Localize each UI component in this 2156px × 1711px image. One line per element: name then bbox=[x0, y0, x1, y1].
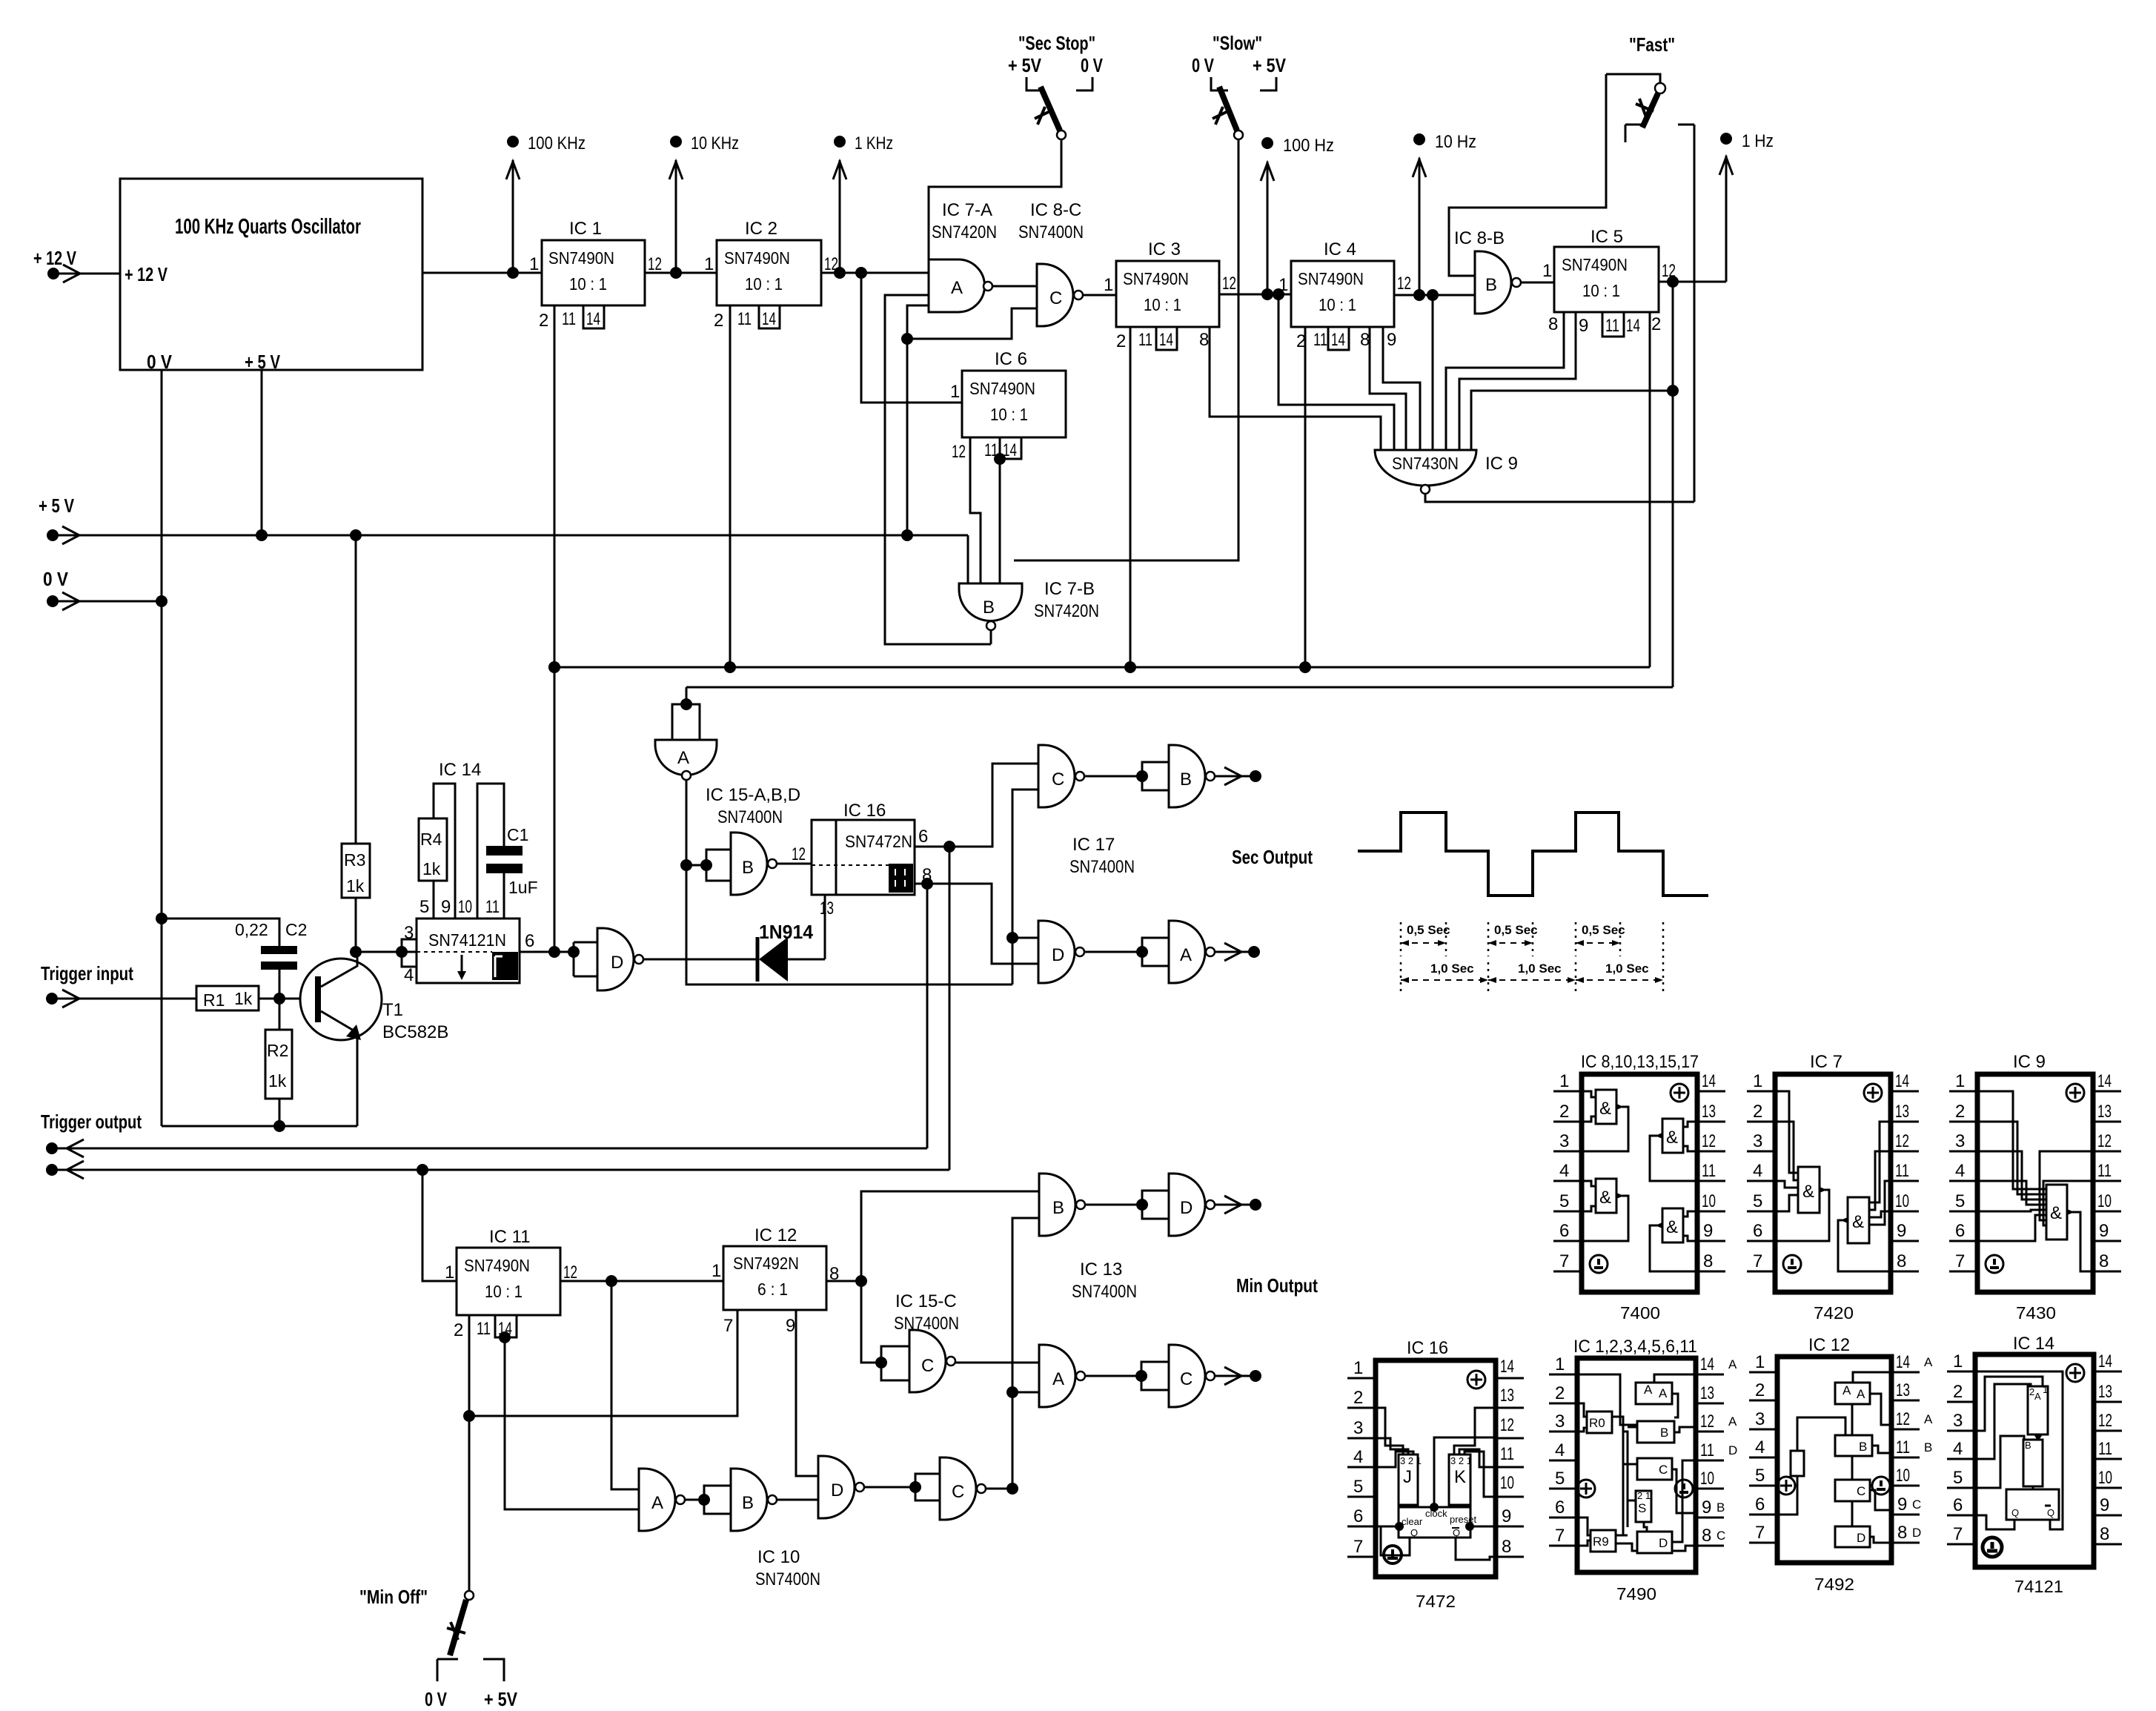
wire R3 to collector node bbox=[355, 898, 357, 952]
svg-text:14: 14 bbox=[1626, 316, 1640, 336]
gate A IC7-A SN7420N bbox=[929, 200, 997, 312]
wire IC6 pin12 to IC7-B input2 bbox=[970, 437, 981, 583]
svg-text:4: 4 bbox=[404, 965, 414, 985]
resistor R2 bbox=[265, 1030, 292, 1099]
svg-text:A: A bbox=[1644, 1383, 1653, 1397]
svg-text:2: 2 bbox=[1353, 1388, 1363, 1408]
svg-text:R3: R3 bbox=[344, 850, 365, 870]
svg-text:2: 2 bbox=[714, 311, 723, 331]
svg-text:IC 9: IC 9 bbox=[2013, 1052, 2046, 1072]
svg-text:6: 6 bbox=[1559, 1221, 1569, 1241]
gate A IC10 SN7400N bbox=[639, 1469, 685, 1531]
svg-text:4: 4 bbox=[1753, 1161, 1762, 1181]
svg-text:14: 14 bbox=[1896, 1352, 1910, 1372]
svg-text:1: 1 bbox=[704, 254, 714, 274]
svg-text:IC 10: IC 10 bbox=[757, 1547, 800, 1567]
dimension 0,5 Sec markers bbox=[1401, 922, 1625, 956]
pinout IC 8,10,13,15,17 7400 bbox=[1553, 1052, 1725, 1323]
svg-text:6: 6 bbox=[1753, 1221, 1762, 1241]
inner gate 3 bbox=[1683, 1122, 1697, 1151]
svg-text:13: 13 bbox=[1500, 1386, 1514, 1406]
wire Slow to IC7-B input4 bbox=[1014, 139, 1238, 560]
label IC 13 bbox=[1072, 1260, 1137, 1302]
gate B IC13 SN7400N bbox=[1039, 1174, 1085, 1236]
svg-text:S: S bbox=[1638, 1501, 1646, 1515]
svg-text:Q: Q bbox=[2047, 1507, 2054, 1518]
svg-text:5: 5 bbox=[1559, 1191, 1569, 1211]
svg-text:1: 1 bbox=[1953, 1351, 1963, 1371]
wire IC7-A output to IC8-C bbox=[992, 285, 1037, 288]
inner gate 8-input bbox=[1977, 1091, 2046, 1241]
svg-text:3: 3 bbox=[1755, 1409, 1765, 1429]
wire IC3 pin2 reset down bbox=[1130, 327, 1132, 667]
svg-text:2: 2 bbox=[539, 311, 548, 331]
gate B IC10 SN7400N bbox=[704, 1469, 777, 1531]
svg-text:8: 8 bbox=[1897, 1523, 1907, 1543]
svg-text:8: 8 bbox=[2099, 1251, 2109, 1271]
wire IC5 out down to IC9 in8 and sec bus bbox=[1672, 282, 1674, 687]
wire trigger output 2 bbox=[52, 1169, 949, 1171]
wire Fast left to IC8-B loop bbox=[1449, 74, 1606, 276]
svg-text:3 2 1: 3 2 1 bbox=[1450, 1455, 1472, 1466]
svg-text:10: 10 bbox=[1895, 1191, 1909, 1211]
svg-text:C: C bbox=[952, 1482, 964, 1502]
inner J box bbox=[1376, 1408, 1413, 1467]
svg-text:12: 12 bbox=[563, 1262, 577, 1283]
svg-text:SN7472N: SN7472N bbox=[845, 832, 912, 851]
svg-text:SN7490N: SN7490N bbox=[1123, 269, 1189, 288]
gate A IC13 SN7400N bbox=[1039, 1345, 1085, 1407]
wire IC7-B out feed to IC7-A input3 bbox=[885, 295, 991, 644]
svg-text:7: 7 bbox=[1955, 1251, 1965, 1271]
svg-text:2: 2 bbox=[1555, 1383, 1565, 1403]
node +12V input bbox=[33, 247, 120, 282]
svg-text:8: 8 bbox=[1548, 314, 1558, 334]
gate D IC10 SN7400N bbox=[818, 1456, 864, 1518]
inner B box bbox=[1637, 1421, 1674, 1443]
svg-text:Trigger output: Trigger output bbox=[41, 1111, 142, 1133]
wire IC5 pin8 to IC9 in6 bbox=[1446, 312, 1564, 450]
svg-text:T1: T1 bbox=[382, 1000, 403, 1020]
wire oscillator +5V down bbox=[261, 370, 263, 535]
svg-text:13: 13 bbox=[820, 898, 834, 919]
svg-text:13: 13 bbox=[1896, 1380, 1910, 1400]
wire IC11 pin2 down to Min Off bbox=[468, 1315, 471, 1592]
wire IC4 out to IC8-B bbox=[1394, 294, 1475, 297]
svg-text:A: A bbox=[1659, 1386, 1668, 1400]
wire pin8 up to IC13-B input bbox=[861, 1191, 1039, 1281]
gate B IC8-B SN7400N bbox=[1454, 228, 1521, 314]
svg-text:2: 2 bbox=[1651, 314, 1661, 334]
svg-text:10 : 1: 10 : 1 bbox=[485, 1282, 523, 1301]
svg-text:IC 8-C: IC 8-C bbox=[1030, 200, 1081, 220]
svg-text:12: 12 bbox=[792, 844, 806, 864]
svg-text:0 V: 0 V bbox=[1192, 54, 1215, 76]
svg-text:1,0 Sec: 1,0 Sec bbox=[1605, 962, 1649, 976]
svg-text:C: C bbox=[1857, 1484, 1865, 1498]
svg-text:10: 10 bbox=[2098, 1468, 2112, 1488]
wire trigger output 1 bbox=[52, 1148, 927, 1150]
svg-text:5: 5 bbox=[419, 897, 429, 917]
svg-text:9: 9 bbox=[1579, 316, 1588, 336]
pinout IC 1,2,3,4,5,6,11 7490 bbox=[1549, 1337, 1737, 1604]
wire +5V rail corner into IC7-B input1 bbox=[967, 535, 969, 583]
wire 1Hz clock bus y927 bbox=[686, 686, 1673, 689]
svg-text:IC 7-A: IC 7-A bbox=[942, 200, 992, 220]
svg-text:B: B bbox=[1052, 1198, 1064, 1218]
svg-text:0,22: 0,22 bbox=[235, 920, 268, 939]
svg-text:0 V: 0 V bbox=[43, 568, 69, 590]
svg-text:SN7490N: SN7490N bbox=[1562, 255, 1628, 274]
inner C box bbox=[1637, 1458, 1672, 1480]
diode D1 1N914 bbox=[643, 921, 825, 982]
svg-text:12: 12 bbox=[952, 442, 966, 462]
wire IC17-D out to IC17-A bbox=[1084, 951, 1142, 953]
svg-text:A: A bbox=[2034, 1391, 2041, 1402]
wire IC16 pin6 output bbox=[915, 764, 1038, 847]
svg-text:1,0 Sec: 1,0 Sec bbox=[1518, 962, 1562, 976]
svg-text:R4: R4 bbox=[420, 830, 442, 849]
svg-text:8: 8 bbox=[1360, 330, 1370, 350]
svg-text:9: 9 bbox=[1703, 1221, 1713, 1241]
inner C box bbox=[1835, 1480, 1870, 1501]
svg-text:14: 14 bbox=[1700, 1354, 1714, 1374]
wire C2 top to 0V vertical bbox=[162, 919, 279, 946]
svg-text:3: 3 bbox=[1953, 1411, 1963, 1431]
svg-text:A: A bbox=[1728, 1357, 1737, 1371]
svg-text:1: 1 bbox=[1955, 1071, 1965, 1091]
svg-text:A: A bbox=[1052, 1369, 1064, 1389]
svg-text:10: 10 bbox=[1702, 1191, 1716, 1211]
svg-text:+ 5V: + 5V bbox=[1253, 54, 1287, 76]
svg-text:+ 12 V: + 12 V bbox=[125, 263, 167, 285]
wire +5V rail bbox=[53, 535, 968, 537]
node Sec output 2 bbox=[1215, 943, 1260, 961]
label IC 17 bbox=[1069, 835, 1135, 877]
svg-text:+ 5V: + 5V bbox=[484, 1688, 518, 1710]
inner A box bbox=[1835, 1383, 1870, 1404]
waveform Sec Output timing bbox=[1358, 813, 1708, 896]
wire IC4 pin9 to IC9 in4 bbox=[1383, 327, 1420, 450]
label IC 10 bbox=[755, 1547, 820, 1589]
svg-text:IC 1,2,3,4,5,6,11: IC 1,2,3,4,5,6,11 bbox=[1573, 1337, 1697, 1357]
svg-text:13: 13 bbox=[1895, 1102, 1909, 1122]
svg-text:C1: C1 bbox=[507, 825, 528, 844]
wire reset bus y900 bbox=[554, 666, 1650, 669]
svg-text:0 V: 0 V bbox=[147, 351, 173, 373]
svg-text:R1: R1 bbox=[203, 990, 225, 1010]
svg-text:IC 11: IC 11 bbox=[489, 1227, 531, 1247]
svg-text:6: 6 bbox=[1953, 1495, 1963, 1515]
svg-text:7: 7 bbox=[1753, 1251, 1762, 1271]
svg-text:B: B bbox=[1924, 1440, 1932, 1454]
svg-text:12: 12 bbox=[1895, 1131, 1909, 1151]
node Min output 1 bbox=[1215, 1196, 1261, 1214]
svg-text:Q: Q bbox=[1453, 1527, 1460, 1538]
svg-text:9: 9 bbox=[1387, 330, 1396, 350]
wire Fast right to IC9 output bbox=[1694, 125, 1696, 502]
svg-text:D: D bbox=[1857, 1531, 1865, 1545]
svg-text:14: 14 bbox=[1159, 330, 1173, 350]
svg-text:10: 10 bbox=[1896, 1466, 1910, 1486]
inner D box bbox=[1835, 1526, 1870, 1547]
node 100 Hz tap bbox=[1261, 136, 1334, 294]
svg-text:8: 8 bbox=[1199, 330, 1209, 350]
svg-text:IC 14: IC 14 bbox=[439, 760, 481, 780]
svg-text:10: 10 bbox=[2097, 1191, 2112, 1211]
svg-text:IC 13: IC 13 bbox=[1080, 1260, 1122, 1280]
svg-text:A: A bbox=[1842, 1383, 1851, 1397]
wire IC6 pin11/14 to IC7-B input3 bbox=[999, 459, 1001, 583]
svg-text:IC 12: IC 12 bbox=[1808, 1335, 1850, 1355]
svg-text:0 V: 0 V bbox=[425, 1688, 448, 1710]
wire IC15-C out to IC13-A input bbox=[955, 1362, 1039, 1364]
IC U14 SN74121N one-shot bbox=[404, 760, 534, 985]
wire 0V input to vertical bbox=[53, 600, 162, 603]
node Trigger input bbox=[41, 962, 196, 1007]
svg-text:B: B bbox=[1180, 770, 1192, 790]
svg-text:100 KHz Quarts Oscillator: 100 KHz Quarts Oscillator bbox=[175, 215, 361, 239]
pinout IC 7 7420 bbox=[1747, 1052, 1919, 1323]
svg-text:5: 5 bbox=[1953, 1468, 1963, 1488]
svg-text:9: 9 bbox=[1502, 1506, 1511, 1526]
svg-text:C: C bbox=[1052, 770, 1064, 790]
gate D IC13 SN7400N bbox=[1142, 1174, 1215, 1236]
svg-text:4: 4 bbox=[1953, 1439, 1963, 1459]
svg-text:3: 3 bbox=[1555, 1412, 1565, 1432]
IC U6 SN7490N (IC 6) bbox=[950, 349, 1066, 465]
svg-text:14: 14 bbox=[2098, 1351, 2112, 1371]
inner Q box bbox=[2006, 1489, 2059, 1520]
resistor R1 bbox=[196, 986, 259, 1010]
svg-text:0,5 Sec: 0,5 Sec bbox=[1494, 923, 1538, 937]
wire IC14 pin5 to R4 bbox=[433, 881, 435, 919]
svg-text:6: 6 bbox=[1555, 1497, 1565, 1518]
svg-text:Sec Output: Sec Output bbox=[1232, 846, 1313, 868]
svg-text:C: C bbox=[1912, 1497, 1921, 1512]
svg-text:12: 12 bbox=[1702, 1131, 1716, 1151]
svg-text:2: 2 bbox=[1955, 1102, 1965, 1122]
wire IC5 pin9 to IC9 in7 bbox=[1459, 312, 1576, 450]
svg-text:7: 7 bbox=[1353, 1537, 1363, 1557]
svg-text:7472: 7472 bbox=[1416, 1592, 1456, 1611]
svg-text:A: A bbox=[1728, 1414, 1737, 1429]
svg-text:10 : 1: 10 : 1 bbox=[1582, 281, 1620, 300]
svg-text:SN7400N: SN7400N bbox=[755, 1569, 820, 1589]
wire IC17-C out to IC17-B bbox=[1084, 775, 1142, 778]
svg-text:10: 10 bbox=[1500, 1473, 1514, 1493]
svg-text:11: 11 bbox=[2097, 1161, 2112, 1181]
wire diode to IC16 pin13 bbox=[824, 895, 826, 959]
IC U4 SN7490N (IC 4) bbox=[1278, 239, 1411, 351]
svg-text:B: B bbox=[1660, 1426, 1668, 1440]
svg-text:A: A bbox=[951, 278, 963, 298]
svg-text:5: 5 bbox=[1753, 1191, 1762, 1211]
svg-text:B: B bbox=[742, 1493, 754, 1513]
svg-text:100 KHz: 100 KHz bbox=[528, 133, 586, 153]
svg-text:1 Hz: 1 Hz bbox=[1742, 131, 1774, 151]
svg-text:IC 17: IC 17 bbox=[1072, 835, 1115, 855]
inner R9 box bbox=[1591, 1530, 1616, 1552]
svg-text:11: 11 bbox=[1500, 1444, 1514, 1464]
svg-text:&: & bbox=[1666, 1128, 1678, 1148]
IC U1 SN7490N (IC 1) bbox=[529, 219, 662, 331]
capacitor C2 bbox=[235, 920, 307, 970]
svg-text:5: 5 bbox=[1755, 1466, 1765, 1486]
wire IC12 pin7 to IC11 pin2 line bbox=[469, 1310, 737, 1416]
wire IC1 pin2 reset line down bbox=[554, 305, 556, 952]
wire IC10-C out to IC13 inputs vertical bbox=[986, 1488, 1012, 1490]
wire IC15-A output down and right bbox=[686, 780, 1012, 984]
gate D IC15-D SN7400N bbox=[574, 928, 643, 990]
svg-text:&: & bbox=[1599, 1099, 1611, 1119]
svg-text:IC 9: IC 9 bbox=[1485, 454, 1518, 474]
oscillator box 100 KHz Quartz bbox=[120, 179, 422, 373]
svg-text:A: A bbox=[651, 1493, 663, 1513]
svg-text:1k: 1k bbox=[346, 876, 365, 896]
svg-text:2 1: 2 1 bbox=[1637, 1490, 1651, 1501]
wire C1 bottom to pin11 bbox=[503, 873, 505, 919]
svg-text:D: D bbox=[1052, 945, 1064, 965]
svg-text:9: 9 bbox=[2100, 1495, 2109, 1515]
inner clock box bbox=[1399, 1507, 1470, 1538]
svg-text:A: A bbox=[1924, 1412, 1933, 1426]
wire IC5 out to 1Hz bbox=[1659, 281, 1726, 283]
wire Sec Stop to IC7-A input1 bbox=[929, 139, 1061, 263]
svg-text:14: 14 bbox=[1895, 1071, 1909, 1091]
wire IC14 pin3/4 bracket bbox=[402, 939, 417, 967]
svg-text:IC 8,10,13,15,17: IC 8,10,13,15,17 bbox=[1581, 1052, 1699, 1072]
inner gate 1 bbox=[1775, 1091, 1798, 1211]
svg-text:1: 1 bbox=[445, 1262, 454, 1283]
svg-text:clear: clear bbox=[1402, 1516, 1423, 1527]
svg-text:3: 3 bbox=[1753, 1131, 1762, 1151]
svg-text:10: 10 bbox=[458, 897, 472, 917]
svg-text:10 : 1: 10 : 1 bbox=[990, 405, 1028, 424]
svg-text:14: 14 bbox=[1331, 330, 1345, 350]
wire IC15-B output to IC16 pin12 bbox=[777, 863, 812, 865]
inner gate 2 bbox=[1582, 1181, 1596, 1211]
svg-text:D: D bbox=[611, 953, 623, 973]
svg-text:3: 3 bbox=[404, 923, 414, 943]
svg-text:D: D bbox=[831, 1480, 843, 1500]
wire emitter rail bbox=[162, 1125, 357, 1128]
labels IC15-A,B,D bbox=[706, 785, 800, 827]
svg-text:A: A bbox=[677, 748, 689, 768]
svg-text:IC 6: IC 6 bbox=[995, 349, 1027, 369]
svg-text:2: 2 bbox=[1559, 1102, 1569, 1122]
gate IC9 SN7430N 8-input NAND bbox=[1375, 450, 1518, 494]
IC U3 SN7490N (IC 3) bbox=[1104, 239, 1236, 351]
svg-text:12: 12 bbox=[1397, 274, 1411, 294]
svg-text:A: A bbox=[1180, 945, 1192, 965]
svg-text:3: 3 bbox=[1353, 1418, 1363, 1438]
svg-text:SN7492N: SN7492N bbox=[733, 1254, 799, 1273]
svg-text:SN7420N: SN7420N bbox=[932, 222, 997, 242]
svg-text:5: 5 bbox=[1353, 1477, 1363, 1497]
wire pin8 down to IC15-C input bbox=[861, 1281, 881, 1363]
svg-text:1: 1 bbox=[1555, 1354, 1565, 1374]
svg-text:J: J bbox=[1403, 1467, 1412, 1487]
svg-text:11: 11 bbox=[485, 897, 500, 917]
svg-text:"Slow": "Slow" bbox=[1213, 32, 1262, 54]
svg-text:10 KHz: 10 KHz bbox=[691, 133, 739, 153]
svg-text:B: B bbox=[742, 858, 754, 878]
svg-text:1: 1 bbox=[1755, 1352, 1765, 1372]
switch "Slow" bbox=[1192, 32, 1287, 139]
inner routing bbox=[1612, 1417, 1637, 1551]
wire reset node up bbox=[548, 661, 560, 673]
wire IC2 pin2 reset line down bbox=[729, 305, 732, 667]
svg-text:5: 5 bbox=[1955, 1191, 1965, 1211]
svg-text:C: C bbox=[1180, 1369, 1193, 1389]
svg-text:6: 6 bbox=[525, 931, 534, 951]
wire IC13-B out to IC13-D bbox=[1085, 1204, 1142, 1206]
svg-text:A: A bbox=[1857, 1387, 1865, 1401]
svg-text:6: 6 bbox=[1755, 1495, 1765, 1515]
svg-text:11: 11 bbox=[1895, 1161, 1909, 1181]
svg-text:SN7420N: SN7420N bbox=[1034, 601, 1099, 621]
gate C IC10 SN7400N bbox=[915, 1457, 986, 1520]
gate C IC8-C SN7400N bbox=[1018, 200, 1084, 326]
svg-text:7490: 7490 bbox=[1616, 1584, 1656, 1604]
svg-text:IC 15-A,B,D: IC 15-A,B,D bbox=[706, 785, 800, 805]
wire IC10-A out to IC10-B bbox=[685, 1499, 704, 1501]
svg-text:2: 2 bbox=[1953, 1382, 1963, 1402]
svg-text:4: 4 bbox=[1559, 1161, 1569, 1181]
wire IC12 pin8 output bbox=[826, 1280, 861, 1283]
svg-text:12: 12 bbox=[1700, 1412, 1714, 1432]
svg-text:9: 9 bbox=[2099, 1221, 2109, 1241]
inner routing bbox=[1975, 1377, 2043, 1488]
svg-text:7492: 7492 bbox=[1814, 1575, 1854, 1594]
svg-text:1: 1 bbox=[1542, 261, 1552, 281]
wire R1 to base node bbox=[259, 998, 317, 1000]
IC U2 SN7490N (IC 2) bbox=[704, 219, 838, 331]
wire IC8-C output to IC3 bbox=[1083, 294, 1116, 297]
svg-text:C2: C2 bbox=[285, 920, 307, 939]
svg-text:IC 2: IC 2 bbox=[745, 219, 777, 239]
svg-text:11: 11 bbox=[1605, 316, 1619, 336]
IC U5 SN7490N (IC 5) bbox=[1542, 227, 1676, 337]
svg-text:11: 11 bbox=[1313, 330, 1327, 350]
svg-text:11: 11 bbox=[562, 309, 576, 329]
svg-text:IC 5: IC 5 bbox=[1591, 227, 1623, 247]
svg-text:10 : 1: 10 : 1 bbox=[1319, 295, 1356, 314]
svg-text:D: D bbox=[1180, 1198, 1193, 1218]
node 1 KHz tap bbox=[833, 133, 893, 273]
svg-text:+ 5 V: + 5 V bbox=[39, 494, 75, 517]
inner S box bbox=[1636, 1491, 1651, 1522]
svg-text:D: D bbox=[1912, 1526, 1921, 1540]
node 10 KHz tap bbox=[669, 133, 739, 273]
wire IC10-B out to IC10-D input bbox=[777, 1499, 818, 1501]
switch "Sec Stop" bbox=[1008, 32, 1104, 139]
inner B box bbox=[2023, 1440, 2043, 1486]
svg-text:4: 4 bbox=[1555, 1440, 1565, 1460]
gate C IC13 SN7400N bbox=[1141, 1345, 1215, 1407]
svg-text:C: C bbox=[1049, 288, 1062, 308]
svg-text:IC 12: IC 12 bbox=[754, 1225, 797, 1245]
gate A IC17 SN7400N bbox=[1142, 921, 1215, 983]
wire IC3 to IC4 bbox=[1219, 294, 1291, 296]
svg-text:12: 12 bbox=[2098, 1411, 2112, 1431]
svg-text:11: 11 bbox=[1138, 330, 1152, 350]
node 100 KHz tap bbox=[506, 133, 586, 273]
node Trigger output bbox=[41, 1111, 142, 1179]
node 1 Hz tap bbox=[1719, 131, 1774, 282]
svg-text:14: 14 bbox=[2097, 1071, 2112, 1091]
